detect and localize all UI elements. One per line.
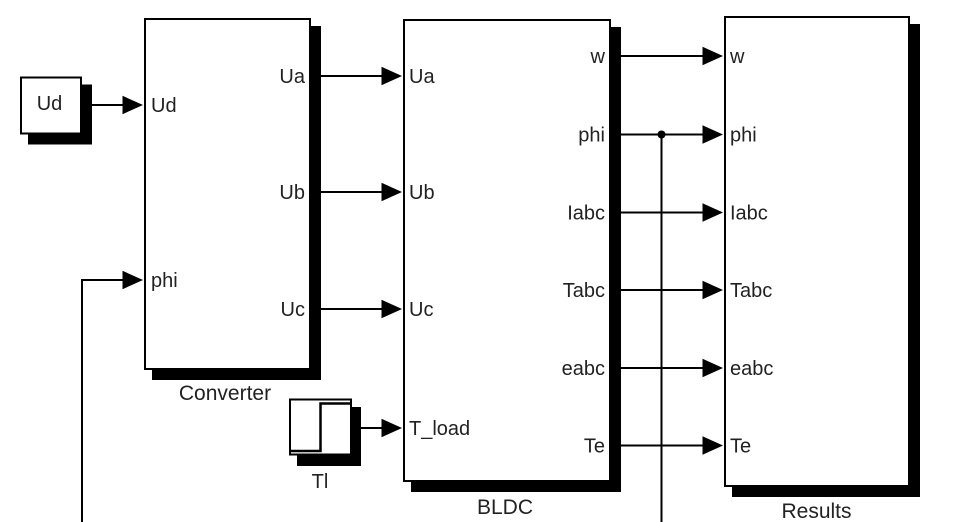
constant block Ud shadow <box>28 85 92 145</box>
svg-text:T_load: T_load <box>409 418 470 440</box>
wire BLDC w to Results w <box>611 55 705 57</box>
wire BLDC eabc to Results eabc <box>611 367 705 369</box>
svg-text:Converter: Converter <box>179 382 271 405</box>
arrowhead into Converter phi input <box>123 271 144 289</box>
svg-text:phi: phi <box>151 270 178 292</box>
wire Converter Ua to BLDC Ua <box>311 75 384 77</box>
step waveform icon inside Tl <box>291 404 350 452</box>
arrowhead into Results Tabc input <box>703 281 724 299</box>
wire Tl output to BLDC T_load input <box>361 427 384 429</box>
svg-text:Results: Results <box>781 500 851 522</box>
svg-text:Ud: Ud <box>151 95 177 117</box>
wire BLDC Iabc to Results Iabc <box>611 212 705 214</box>
svg-text:Ub: Ub <box>279 182 305 204</box>
svg-text:Tl: Tl <box>312 471 329 493</box>
svg-text:Ud: Ud <box>37 93 63 115</box>
arrowhead into Results phi input <box>703 125 724 143</box>
svg-text:Ua: Ua <box>409 66 435 88</box>
subsystem BLDC <box>404 20 610 481</box>
scope block Results shadow <box>732 24 920 497</box>
svg-text:Te: Te <box>584 436 605 458</box>
wire phi feedback vertical segment at left <box>81 280 83 522</box>
arrowhead into Results eabc input <box>703 359 724 377</box>
wire Converter Uc to BLDC Uc <box>311 308 384 310</box>
svg-text:eabc: eabc <box>562 358 605 380</box>
wire BLDC Te to Results Te <box>611 445 705 447</box>
svg-text:Tabc: Tabc <box>563 280 605 302</box>
svg-text:eabc: eabc <box>730 358 773 380</box>
wire Ud output to Converter Ud input <box>82 104 125 106</box>
arrowhead into BLDC Ub input <box>382 183 403 201</box>
scope block Results <box>725 17 909 486</box>
svg-text:Ua: Ua <box>279 66 305 88</box>
svg-text:Iabc: Iabc <box>730 203 768 225</box>
step source block Tl shadow <box>297 407 361 466</box>
svg-text:BLDC: BLDC <box>477 496 533 519</box>
arrowhead into Results Iabc input <box>703 203 724 221</box>
arrowhead into Results w input <box>703 47 724 65</box>
svg-text:w: w <box>729 46 745 68</box>
wire Converter Ub to BLDC Ub <box>311 191 384 193</box>
step source block Tl <box>290 400 351 455</box>
constant block Ud <box>21 78 81 134</box>
svg-text:phi: phi <box>730 125 757 147</box>
svg-text:Ub: Ub <box>409 182 435 204</box>
svg-text:Tabc: Tabc <box>730 280 772 302</box>
wire phi feedback horizontal segment into Converter phi input <box>81 279 125 281</box>
arrowhead into Converter Ud input <box>123 96 144 114</box>
arrowhead into BLDC Uc input <box>382 300 403 318</box>
svg-text:Iabc: Iabc <box>567 203 605 225</box>
svg-text:Uc: Uc <box>409 299 433 321</box>
wire phi feedback branch going down <box>661 135 663 522</box>
svg-text:w: w <box>590 46 606 68</box>
subsystem Converter <box>145 19 310 369</box>
wire BLDC Tabc to Results Tabc <box>611 289 705 291</box>
svg-text:Te: Te <box>730 436 751 458</box>
svg-text:Uc: Uc <box>281 299 305 321</box>
subsystem Converter shadow <box>152 26 321 380</box>
subsystem BLDC shadow <box>411 27 621 492</box>
wire BLDC phi to Results phi <box>611 134 705 136</box>
arrowhead into BLDC T_load input <box>382 419 403 437</box>
arrowhead into Results Te input <box>703 436 724 454</box>
arrowhead into BLDC Ua input <box>382 67 403 85</box>
junction node on phi wire <box>658 131 666 139</box>
svg-text:phi: phi <box>578 125 605 147</box>
